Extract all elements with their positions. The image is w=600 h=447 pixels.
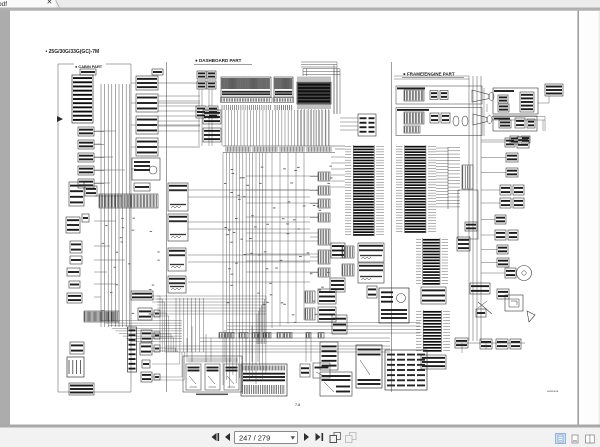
svg-text:247 / 279: 247 / 279 (239, 434, 270, 443)
svg-text:✕: ✕ (47, 0, 53, 6)
svg-text:SW9P4618: SW9P4618 (547, 391, 559, 393)
svg-text:● CABIN PART: ● CABIN PART (75, 64, 103, 69)
svg-text:7-8: 7-8 (295, 403, 300, 407)
svg-text:● DASHBOARD PART: ● DASHBOARD PART (195, 58, 242, 63)
svg-text:pdf: pdf (0, 1, 7, 8)
svg-text:● FRAME/ENGINE PART: ● FRAME/ENGINE PART (403, 72, 455, 77)
svg-text:• 25G/30G/33G(GC)-7M: • 25G/30G/33G(GC)-7M (46, 49, 100, 55)
